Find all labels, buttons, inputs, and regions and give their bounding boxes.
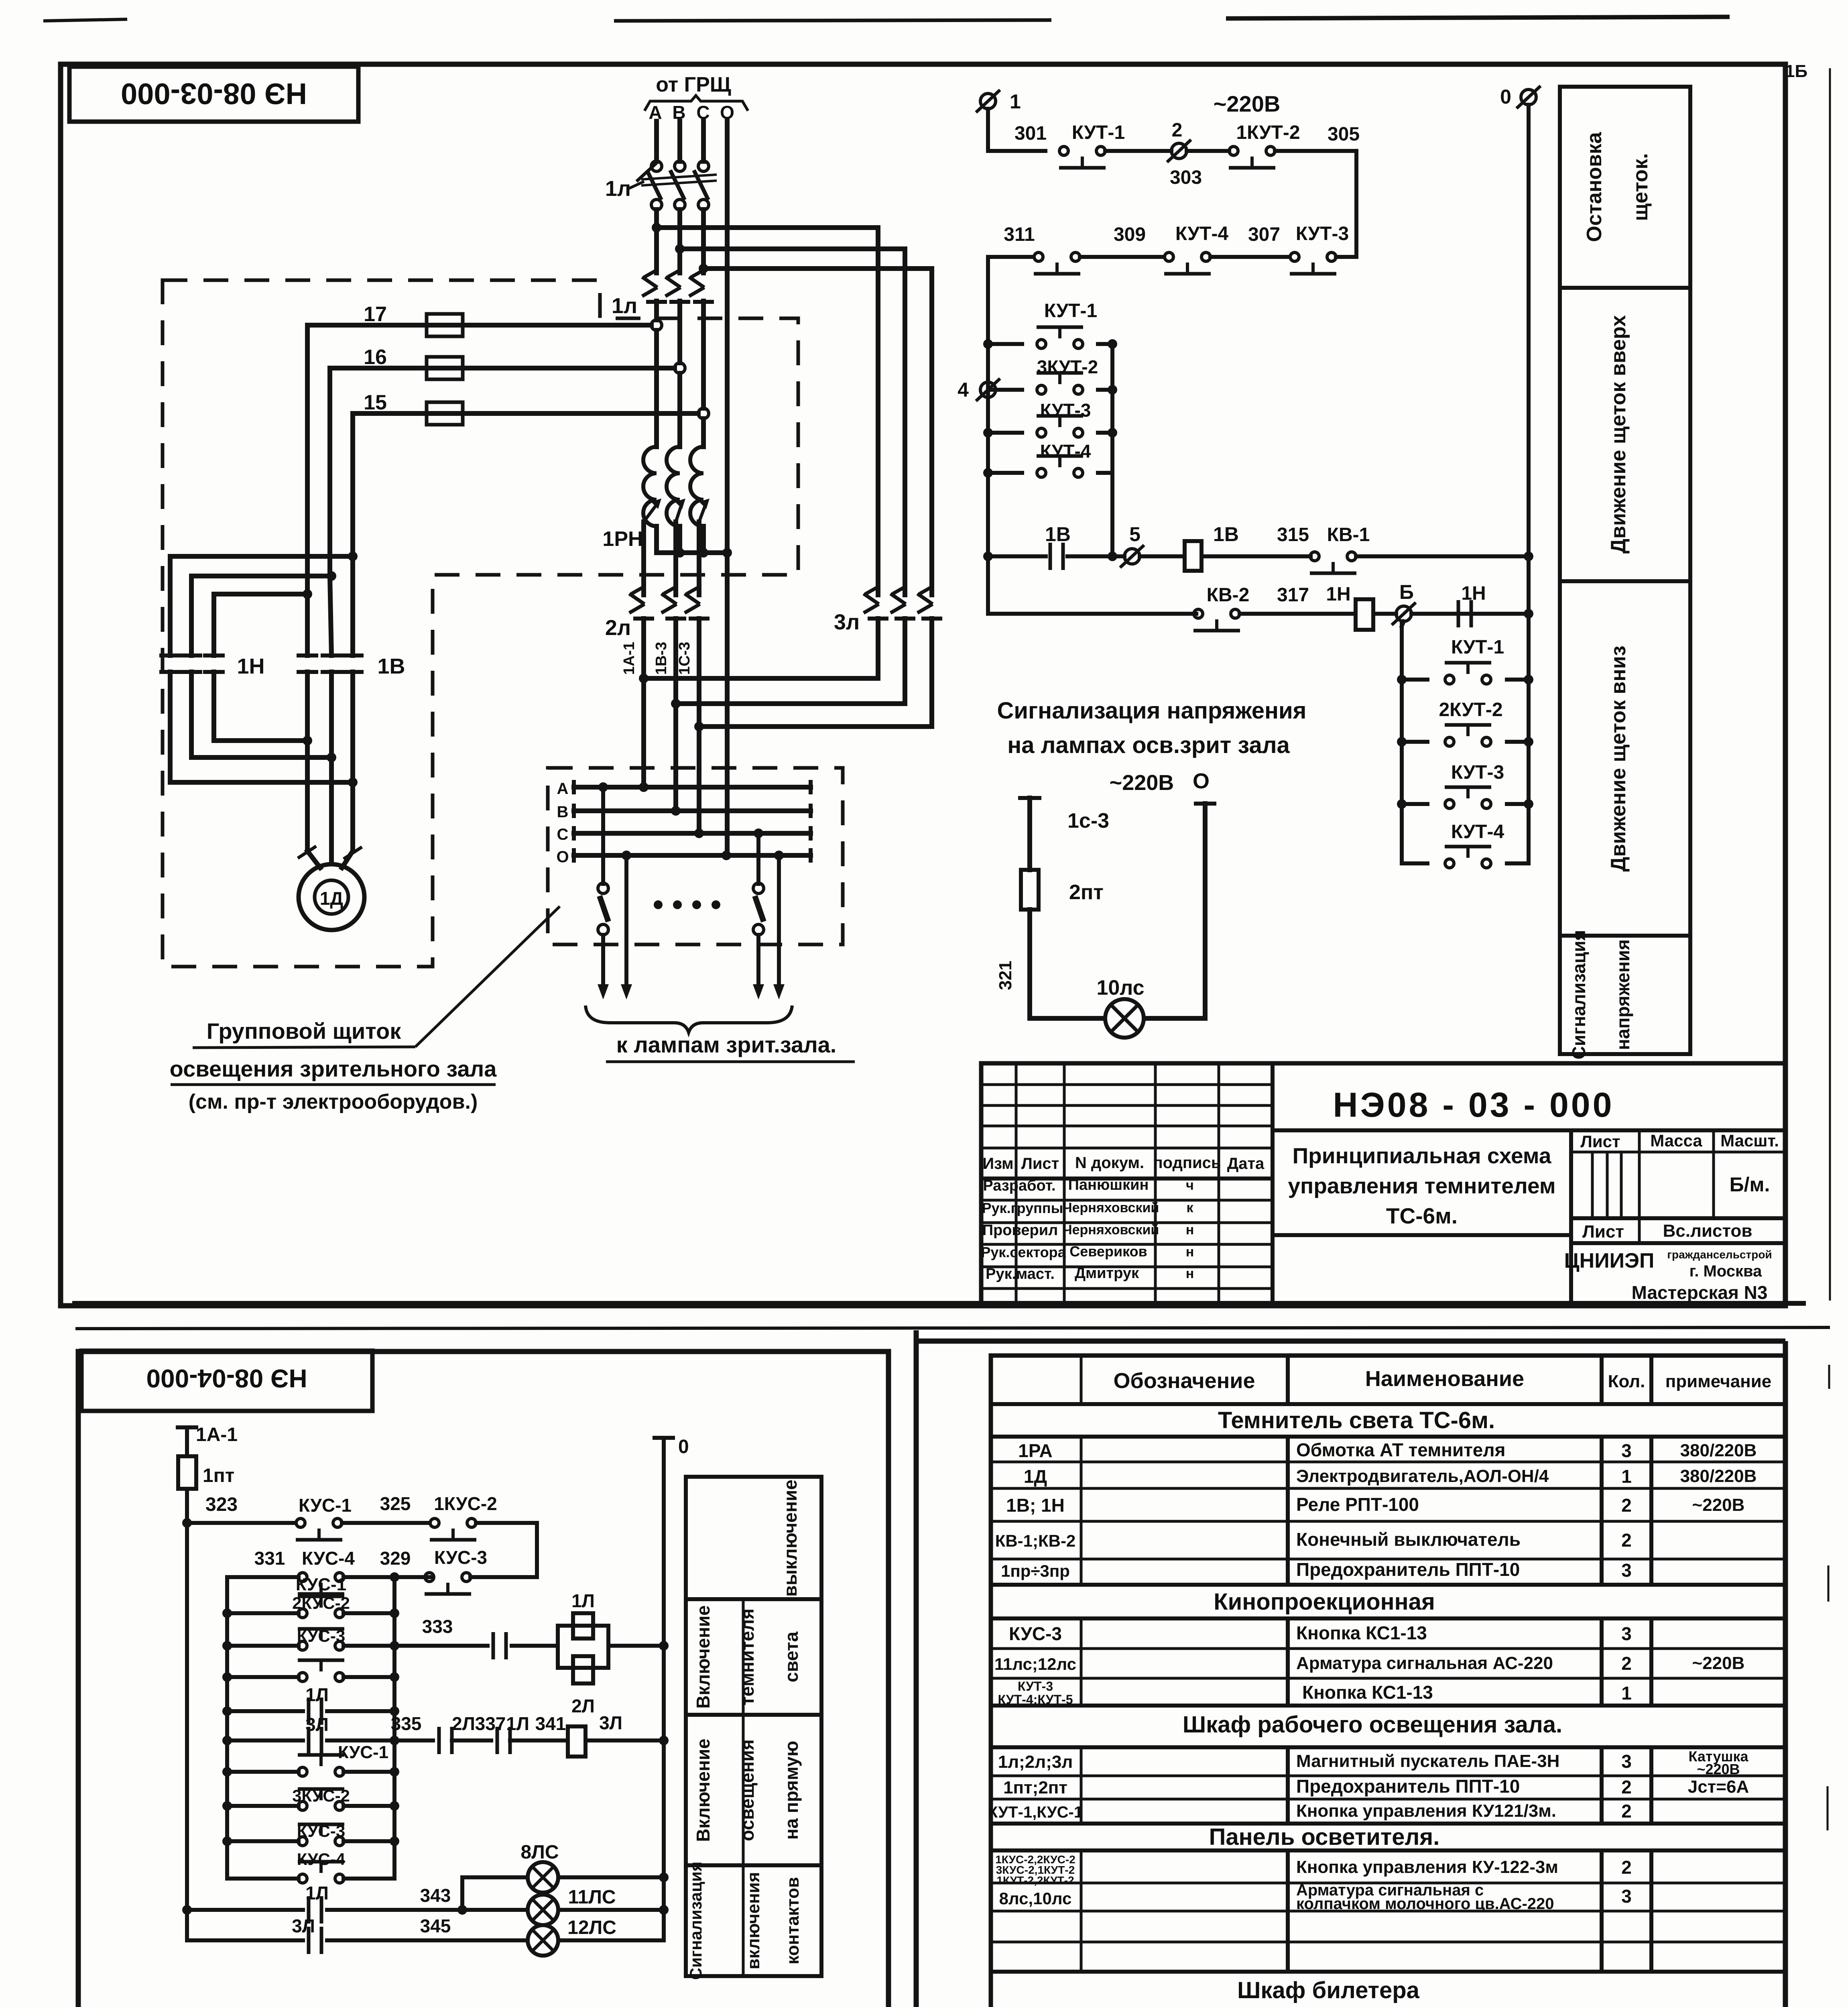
svg-text:А: А (557, 780, 569, 798)
svg-text:КУТ-1: КУТ-1 (1072, 122, 1125, 143)
svg-text:2: 2 (1621, 1801, 1632, 1822)
svg-text:1Б: 1Б (1785, 61, 1807, 81)
reversing loop wires bottom (170, 736, 358, 787)
reversing loop verticals (170, 556, 353, 782)
svg-text:N докум.: N докум. (1075, 1154, 1144, 1172)
brace to lamps (586, 1006, 855, 1062)
contactor contacts 1В (299, 654, 405, 678)
svg-text:1С-3: 1С-3 (676, 642, 693, 675)
svg-text:КУТ-4: КУТ-4 (1451, 821, 1504, 843)
svg-text:1Л: 1Л (571, 1590, 595, 1611)
svg-text:Магнитный пускатель ПАЕ-3Н: Магнитный пускатель ПАЕ-3Н (1296, 1751, 1559, 1771)
row 11лс 12лс (994, 1653, 1744, 1674)
switch 1Л pole C (694, 161, 709, 210)
svg-text:колпачком молочного цв.АС-220: колпачком молочного цв.АС-220 (1296, 1895, 1554, 1913)
svg-text:КУТ-4: КУТ-4 (1040, 441, 1091, 462)
lamp feeder neutral left (621, 851, 632, 999)
right rail from node 0 (1527, 105, 1531, 863)
svg-text:317: 317 (1277, 584, 1309, 606)
row 1Д (1024, 1466, 1757, 1487)
svg-text:Групповой щиток: Групповой щиток (207, 1018, 402, 1044)
svg-text:Кнопка управления КУ121/3м.: Кнопка управления КУ121/3м. (1296, 1801, 1556, 1821)
svg-text:Вс.листов: Вс.листов (1663, 1221, 1752, 1241)
svg-text:315: 315 (1277, 524, 1309, 546)
svg-text:Предохранитель ППТ-10: Предохранитель ППТ-10 (1296, 1776, 1520, 1797)
svg-text:17: 17 (364, 303, 387, 326)
svg-text:КУТ-4: КУТ-4 (1175, 223, 1229, 244)
svg-text:КУС-3: КУС-3 (297, 1626, 345, 1645)
svg-text:темнителя: темнителя (737, 1608, 758, 1706)
sheet 2 frame (78, 1352, 888, 2007)
label ~220В О (1110, 769, 1210, 795)
svg-text:Движение щеток вверх: Движение щеток вверх (1607, 315, 1630, 554)
wire 321 (996, 910, 1105, 1018)
wire phase C down (701, 210, 706, 447)
svg-text:КУТ-1: КУТ-1 (1451, 637, 1504, 658)
svg-text:2л: 2л (605, 616, 631, 640)
svg-text:Рук.сектора: Рук.сектора (981, 1244, 1066, 1260)
svg-text:2Л: 2Л (452, 1713, 475, 1734)
svg-text:КУТ-3: КУТ-3 (1451, 762, 1504, 783)
fuse 2пт (1021, 870, 1104, 910)
svg-text:Предохранитель ППТ-10: Предохранитель ППТ-10 (1296, 1559, 1520, 1580)
svg-text:1Д: 1Д (320, 888, 343, 909)
group rung 1Л aux (222, 1684, 399, 1725)
svg-text:Масса: Масса (1650, 1131, 1702, 1150)
star bus of 1РН to neutral (657, 526, 732, 558)
svg-text:1Л: 1Л (506, 1713, 529, 1734)
svg-text:323: 323 (205, 1494, 238, 1515)
svg-text:примечание: примечание (1665, 1372, 1772, 1391)
sheet 3 frame (916, 1330, 1785, 2007)
rung 333 extension and coils 1Л 2Л (394, 1590, 669, 1716)
section Кинопроекционная (1214, 1589, 1435, 1615)
svg-text:0: 0 (678, 1436, 689, 1457)
svg-text:1Д: 1Д (1024, 1466, 1047, 1487)
svg-text:Темнитель света ТС-6м.: Темнитель света ТС-6м. (1218, 1407, 1495, 1433)
svg-text:света: света (781, 1631, 802, 1682)
svg-text:Обмотка АТ темнителя: Обмотка АТ темнителя (1296, 1439, 1505, 1460)
svg-text:КУТ-3: КУТ-3 (1296, 223, 1349, 244)
right annotation column (1560, 87, 1690, 1059)
sheet2 annotation column (686, 1477, 821, 1980)
rung 345 lamp 12ЛС (187, 1915, 664, 1956)
svg-text:Арматура сигнальная АС-220: Арматура сигнальная АС-220 (1296, 1653, 1553, 1673)
svg-text:ч: ч (1186, 1178, 1194, 1193)
node 1 (976, 90, 1021, 113)
group rung КУС-1 second (222, 1742, 399, 1777)
svg-text:КУС-3: КУС-3 (434, 1547, 487, 1568)
svg-text:Шкаф билетера: Шкаф билетера (1237, 1977, 1420, 2003)
svg-text:Кнопка КС1-13: Кнопка КС1-13 (1296, 1622, 1427, 1643)
wire 1с-3 (1020, 798, 1109, 870)
row 1пр-3пр (1001, 1559, 1632, 1581)
svg-text:Принципиальная схема: Принципиальная схема (1293, 1143, 1551, 1168)
terminal A / wire 17 (307, 303, 662, 594)
node branch C to 3Л (699, 264, 932, 273)
svg-text:КВ-1;КВ-2: КВ-1;КВ-2 (995, 1531, 1076, 1550)
svg-text:Кнопка управления КУ-122-3м: Кнопка управления КУ-122-3м (1296, 1857, 1558, 1877)
wire phase A stub (654, 121, 659, 161)
row 1В 1Н (1006, 1494, 1744, 1516)
svg-text:щеток.: щеток. (1629, 153, 1652, 221)
rung КУТ-3 (983, 400, 1117, 438)
label ~220В (1214, 91, 1281, 116)
parallel group КУТ upper: rung КУТ-1 (983, 300, 1117, 349)
wire phase B stub (677, 121, 682, 161)
svg-text:Кол.: Кол. (1608, 1372, 1645, 1391)
rung 343 lamps (182, 1877, 528, 1924)
svg-text:3КУТ-2: 3КУТ-2 (1037, 356, 1098, 377)
svg-text:О: О (556, 848, 569, 866)
svg-text:341: 341 (535, 1713, 566, 1734)
group 2 rung КУТ-4 (1402, 821, 1529, 868)
contactor 1Л main contacts (612, 270, 714, 318)
svg-text:1: 1 (1621, 1683, 1632, 1704)
left rail middle (986, 257, 990, 556)
svg-text:Севериков: Севериков (1069, 1243, 1147, 1260)
svg-text:10лс: 10лс (1096, 976, 1144, 999)
lamp 10лс (1096, 976, 1144, 1038)
node branch B to 3Л (675, 244, 905, 254)
svg-text:подпись: подпись (1153, 1154, 1221, 1172)
parts table header (1113, 1367, 1771, 1393)
svg-text:333: 333 (422, 1616, 453, 1637)
autotransformer 1РН coil A (643, 447, 657, 526)
svg-text:3: 3 (1621, 1440, 1632, 1461)
svg-text:НЭ08 - 03 - 000: НЭ08 - 03 - 000 (1333, 1086, 1614, 1124)
wires 1А-1 1В-3 1С-3 (621, 619, 699, 833)
svg-text:Движение щеток вниз: Движение щеток вниз (1607, 645, 1630, 871)
svg-text:1В: 1В (1213, 523, 1239, 546)
svg-text:1В-3: 1В-3 (653, 642, 670, 675)
autotransformer 1РН coil B (667, 447, 680, 526)
rung 301/305 (988, 120, 1360, 257)
svg-text:307: 307 (1248, 224, 1280, 245)
parts table outer (991, 1356, 1785, 2007)
lamp feeder switch right (753, 828, 764, 999)
row 1Л 2Л 3Л (998, 1748, 1749, 1777)
group rung КУС-4 bottom (227, 1850, 394, 1883)
section Шкаф рабочего освещения (1183, 1712, 1562, 1738)
lamp 11ЛС (528, 1887, 669, 1925)
svg-text:на прямую: на прямую (781, 1741, 802, 1840)
svg-text:380/220В: 380/220В (1680, 1466, 1757, 1486)
lamp 8ЛС (520, 1842, 669, 1893)
svg-text:2: 2 (1621, 1495, 1632, 1516)
svg-text:2: 2 (1172, 120, 1183, 141)
svg-text:3Л: 3Л (292, 1915, 315, 1936)
svg-text:1В: 1В (1045, 523, 1071, 546)
svg-text:НЭ 08-04-000: НЭ 08-04-000 (146, 1364, 307, 1393)
svg-text:НЭ 08-03-000: НЭ 08-03-000 (121, 77, 307, 110)
svg-text:контактов: контактов (783, 1877, 803, 1964)
svg-text:3: 3 (1621, 1560, 1632, 1581)
svg-text:335: 335 (391, 1713, 422, 1734)
svg-text:Лист: Лист (1021, 1155, 1059, 1172)
svg-text:КУТ-4;КУТ-5: КУТ-4;КУТ-5 (998, 1692, 1073, 1707)
svg-text:1А-1: 1А-1 (621, 642, 638, 675)
motor leads (298, 741, 362, 868)
reversing loop wires top (170, 552, 358, 599)
section Шкаф билетера (1237, 1977, 1420, 2003)
label 1РН (602, 527, 643, 551)
svg-text:Сигнализация: Сигнализация (1568, 930, 1589, 1060)
svg-text:Лист: Лист (1582, 1222, 1624, 1242)
node 4 (958, 379, 1000, 401)
group rung plain (222, 1660, 399, 1682)
terminal B / wire 16 (330, 346, 685, 576)
rung 1В coil (983, 523, 1533, 573)
svg-text:4: 4 (958, 379, 969, 401)
dashed box lamp panel (548, 768, 843, 944)
svg-text:Шкаф рабочего освещения зала.: Шкаф рабочего освещения зала. (1183, 1712, 1562, 1738)
svg-text:КУТ-1,КУС-1: КУТ-1,КУС-1 (988, 1803, 1083, 1821)
svg-text:ТС-6м.: ТС-6м. (1386, 1203, 1458, 1228)
sheet 1 inverted stamp box (69, 67, 358, 122)
svg-text:КУС-4: КУС-4 (297, 1850, 346, 1869)
svg-text:8лс,10лс: 8лс,10лс (999, 1889, 1072, 1908)
page number mark top right (1785, 61, 1807, 81)
svg-text:КУС-1: КУС-1 (299, 1495, 352, 1516)
wires 3Л outputs join (639, 619, 932, 731)
svg-text:КУС-4: КУС-4 (302, 1548, 355, 1569)
svg-text:11ЛС: 11ЛС (568, 1887, 616, 1908)
svg-text:Изм: Изм (982, 1155, 1013, 1172)
svg-text:выключение: выключение (780, 1480, 801, 1597)
lamp panel buses (556, 780, 811, 866)
svg-text:В: В (557, 803, 569, 821)
svg-text:Черняховский: Черняховский (1063, 1200, 1159, 1215)
svg-text:12ЛС: 12ЛС (567, 1917, 616, 1938)
svg-text:Панель осветителя.: Панель осветителя. (1209, 1824, 1440, 1850)
svg-text:~220В: ~220В (1692, 1495, 1745, 1515)
svg-text:Реле РПТ-100: Реле РПТ-100 (1296, 1494, 1419, 1515)
rung КУС-1 325 1КУС-2 (187, 1493, 537, 1577)
svg-text:Включение: Включение (693, 1605, 714, 1709)
row КУТ-1 КУС-1 (988, 1801, 1632, 1822)
svg-text:2пт: 2пт (1069, 881, 1104, 904)
switch 1Л link bar and label (605, 163, 717, 201)
svg-text:Jст=6А: Jст=6А (1688, 1777, 1749, 1797)
svg-text:309: 309 (1114, 224, 1146, 245)
svg-text:н: н (1186, 1244, 1194, 1260)
svg-text:Рук.группы: Рук.группы (982, 1200, 1063, 1216)
parts table column lines (1081, 1356, 1651, 2007)
svg-text:Включение: Включение (693, 1738, 714, 1842)
signal circuit title (997, 698, 1306, 758)
svg-text:1пт: 1пт (203, 1465, 234, 1486)
svg-text:1РН: 1РН (602, 527, 643, 551)
svg-text:1пт;2пт: 1пт;2пт (1003, 1778, 1067, 1797)
svg-text:1: 1 (1621, 1466, 1632, 1487)
svg-text:325: 325 (380, 1493, 411, 1514)
svg-text:на лампах осв.зрит зала: на лампах осв.зрит зала (1007, 732, 1290, 758)
svg-text:3КУС-2: 3КУС-2 (292, 1786, 350, 1805)
svg-text:Б/м.: Б/м. (1730, 1173, 1770, 1196)
svg-text:Наименование: Наименование (1365, 1367, 1524, 1391)
tap output wires down to 2Л (644, 522, 699, 595)
wire phase A down (654, 210, 659, 447)
svg-text:Кинопроекционная: Кинопроекционная (1214, 1589, 1435, 1615)
autotransformer 1РН coil C (690, 447, 703, 526)
svg-text:освещения зрительного зала: освещения зрительного зала (170, 1056, 497, 1081)
contactor 3Л contacts (834, 586, 942, 634)
group 2 rung 2КУТ-2 (1397, 699, 1533, 747)
svg-text:329: 329 (380, 1548, 411, 1569)
svg-text:343: 343 (420, 1885, 451, 1906)
tap arrows of 1РН (644, 499, 710, 522)
contactor 2Л contacts (605, 586, 710, 640)
svg-text:~220В: ~220В (1214, 91, 1281, 116)
svg-text:Проверил: Проверил (982, 1222, 1058, 1239)
wire neutral O (725, 121, 730, 855)
group rung КУС-3 second (222, 1822, 399, 1846)
svg-text:включения: включения (744, 1872, 763, 1970)
row КУС-2 group (995, 1853, 1632, 1887)
switch 1Л pole A (647, 161, 662, 210)
svg-text:1В; 1Н: 1В; 1Н (1006, 1495, 1065, 1516)
svg-text:2: 2 (1621, 1653, 1632, 1674)
separation lines between sheets (72, 1303, 1830, 1329)
svg-text:Разработ.: Разработ. (983, 1177, 1055, 1194)
svg-text:2: 2 (1621, 1777, 1632, 1797)
motor 1Д (299, 864, 364, 930)
svg-text:3Л: 3Л (599, 1712, 622, 1733)
svg-text:1Н: 1Н (237, 654, 264, 678)
dashed cabinet boundary ТС-6м (163, 280, 798, 967)
svg-text:1РА: 1РА (1018, 1440, 1052, 1461)
svg-text:2Л: 2Л (571, 1696, 595, 1716)
parts table horizontal lines (991, 1404, 1785, 2007)
svg-text:337: 337 (475, 1713, 506, 1734)
svg-text:~220В: ~220В (1697, 1761, 1740, 1777)
svg-text:н: н (1186, 1222, 1194, 1238)
svg-text:1л: 1л (605, 177, 631, 201)
svg-text:Сигнализация напряжения: Сигнализация напряжения (997, 698, 1306, 724)
svg-text:380/220В: 380/220В (1680, 1441, 1757, 1460)
svg-text:1А-1: 1А-1 (196, 1424, 238, 1445)
row КУТ-3 КУТ-4 КУТ-5 (998, 1679, 1631, 1707)
wire 1А-1 input (178, 1424, 238, 1456)
svg-text:освещения: освещения (737, 1739, 758, 1841)
svg-text:Сигнализация: Сигнализация (686, 1862, 705, 1980)
text group panel note (170, 1018, 497, 1113)
svg-text:3л: 3л (834, 610, 860, 634)
svg-text:КВ-2: КВ-2 (1207, 584, 1250, 606)
node branch A to 3Л (652, 223, 878, 232)
svg-text:16: 16 (364, 346, 387, 369)
fuse 1пт (178, 1456, 234, 1489)
node 0 (1500, 85, 1541, 108)
svg-text:С: С (557, 826, 569, 843)
lamp feeder neutral right (773, 851, 785, 999)
svg-text:Остановка: Остановка (1583, 132, 1606, 242)
wires from branches to 3Л (878, 228, 932, 595)
svg-text:Дата: Дата (1227, 1155, 1265, 1172)
sheet 1 frame (61, 64, 1785, 1306)
group rung 3КУС-2 (222, 1786, 399, 1811)
section Панель осветителя (1209, 1824, 1440, 1850)
group 2 left rail (1402, 621, 1404, 863)
svg-text:303: 303 (1170, 167, 1202, 188)
svg-text:управления темнителем: управления темнителем (1288, 1173, 1555, 1198)
svg-text:ЦНИИЭП: ЦНИИЭП (1564, 1249, 1655, 1272)
svg-text:15: 15 (364, 391, 387, 414)
row 8лс 10лс (999, 1881, 1632, 1913)
svg-text:КУТ-1: КУТ-1 (1044, 300, 1097, 322)
svg-text:Б: Б (1399, 581, 1414, 603)
svg-text:Конечный выключатель: Конечный выключатель (1296, 1529, 1521, 1550)
right page edge line (1798, 68, 1830, 2007)
svg-text:1пр÷3пр: 1пр÷3пр (1001, 1561, 1070, 1580)
svg-text:11лс;12лс: 11лс;12лс (994, 1655, 1076, 1673)
node: feeder from ГРЩ label (644, 73, 748, 123)
svg-text:н: н (1186, 1266, 1194, 1281)
group rung КУС-3 / rung 333 (222, 1626, 399, 1651)
rung КУТ-4 (983, 441, 1112, 478)
svg-text:Масшт.: Масшт. (1720, 1131, 1779, 1150)
wire 323 / left rail (182, 1489, 238, 1940)
svg-text:331: 331 (254, 1548, 285, 1569)
svg-text:Кнопка КС1-13: Кнопка КС1-13 (1302, 1682, 1433, 1703)
svg-text:КУС-1: КУС-1 (338, 1742, 388, 1762)
svg-text:305: 305 (1328, 124, 1360, 145)
svg-text:граждансельстрой: граждансельстрой (1667, 1248, 1772, 1261)
svg-text:1л: 1л (612, 294, 637, 318)
rail О right (655, 1436, 689, 1940)
row КУС-3 (1009, 1622, 1632, 1644)
svg-text:КУТ-3: КУТ-3 (1040, 400, 1091, 421)
svg-text:2КУС-2: 2КУС-2 (292, 1594, 350, 1612)
rung КВ-2 coil 1Н (988, 556, 1533, 631)
svg-text:1Н: 1Н (1461, 583, 1486, 604)
svg-text:Рук.маст.: Рук.маст. (986, 1266, 1055, 1282)
svg-text:1КУС-2: 1КУС-2 (434, 1493, 497, 1514)
rung 3КУТ-2 (988, 356, 1117, 395)
rung 331 КУС-4 329 КУС-3 (227, 1547, 537, 1594)
dots between feeders (654, 900, 720, 909)
svg-text:напряжения: напряжения (1612, 939, 1633, 1050)
sheet 1 title block (981, 1063, 1786, 1306)
svg-text:1КУТ-2,2КУТ-2: 1КУТ-2,2КУТ-2 (996, 1874, 1074, 1887)
lamp feeder switch left (598, 782, 609, 999)
svg-text:Дмитрук: Дмитрук (1075, 1265, 1139, 1282)
svg-text:3: 3 (1621, 1751, 1632, 1772)
svg-text:5: 5 (1129, 523, 1141, 546)
svg-text:1Н: 1Н (1326, 584, 1350, 605)
svg-text:КУС-3: КУС-3 (1009, 1623, 1062, 1644)
svg-text:к: к (1186, 1200, 1193, 1215)
svg-text:О: О (1193, 769, 1210, 793)
svg-text:2КУТ-2: 2КУТ-2 (1439, 699, 1502, 721)
group right rail (1110, 344, 1114, 556)
switch 1Л pole B (670, 161, 685, 210)
svg-text:КУТ-3: КУТ-3 (1018, 1679, 1053, 1694)
rung 335 with 3Л aux (222, 1712, 669, 1757)
svg-text:321: 321 (996, 961, 1015, 990)
svg-text:КВ-1: КВ-1 (1327, 524, 1370, 546)
svg-text:1с-3: 1с-3 (1067, 809, 1109, 833)
sheet 2 inverted stamp (81, 1351, 372, 1411)
svg-text:1л;2л;3л: 1л;2л;3л (998, 1752, 1073, 1772)
svg-text:1КУТ-2: 1КУТ-2 (1236, 122, 1300, 143)
row 1пт 2пт (1003, 1776, 1749, 1797)
svg-text:г. Москва: г. Москва (1689, 1262, 1762, 1280)
svg-text:3: 3 (1621, 1886, 1632, 1907)
group rung 2КУС-2 (222, 1575, 399, 1618)
leader line to group panel note (415, 906, 560, 1047)
